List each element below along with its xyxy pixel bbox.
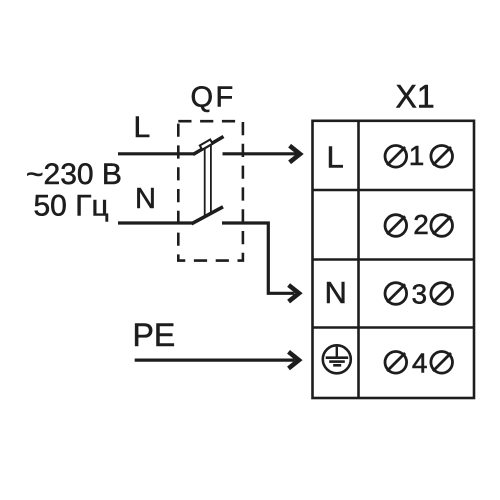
terminal 3 screw right [431, 283, 453, 305]
wire L output to terminal 1 [223, 152, 297, 155]
breaker QF pole N blade [192, 207, 224, 224]
svg-text:3: 3 [412, 279, 428, 310]
terminal block X1 outline [313, 121, 475, 398]
terminal 1 screw left [385, 146, 407, 168]
svg-text:QF: QF [191, 82, 236, 114]
arrowhead L [290, 146, 300, 163]
terminal 4 screw right [431, 352, 453, 374]
terminal block column separator [357, 121, 360, 398]
terminal block row separator 2/3 [313, 258, 475, 261]
wire N input [118, 221, 193, 224]
svg-text:N: N [325, 275, 347, 310]
terminal 1 screw right [431, 146, 453, 168]
PE ground symbol in terminal row 4 [323, 345, 351, 373]
terminal block row separator 3/4 [313, 326, 475, 329]
dashed enclosure QF [178, 121, 243, 260]
svg-text:4: 4 [412, 348, 428, 379]
svg-text:2: 2 [413, 209, 429, 240]
terminal 3 screw left [385, 283, 407, 305]
svg-text:L: L [327, 140, 344, 175]
terminal 2 screw right [431, 215, 453, 237]
arrowhead N [289, 285, 299, 302]
svg-text:N: N [135, 183, 156, 215]
breaker QF latch rectangle [200, 140, 213, 150]
terminal 4 screw left [385, 352, 407, 374]
breaker QF mechanical link [205, 145, 211, 217]
svg-text:X1: X1 [396, 79, 435, 115]
svg-text:~230 В: ~230 В [26, 158, 122, 191]
terminal 2 screw left [385, 215, 407, 237]
breaker QF pole L blade [193, 137, 224, 155]
svg-text:L: L [134, 111, 151, 144]
wire PE to terminal 4 [135, 359, 295, 362]
arrowhead PE [289, 352, 299, 369]
wire N output to terminal 3 [222, 223, 295, 293]
terminal block row separator 1/2 [313, 189, 475, 192]
svg-text:PE: PE [133, 317, 176, 353]
svg-text:1: 1 [409, 140, 425, 171]
label ~230 V 50 Hz supply [26, 158, 122, 223]
wire L input [118, 152, 194, 155]
svg-text:50 Гц: 50 Гц [34, 190, 109, 223]
